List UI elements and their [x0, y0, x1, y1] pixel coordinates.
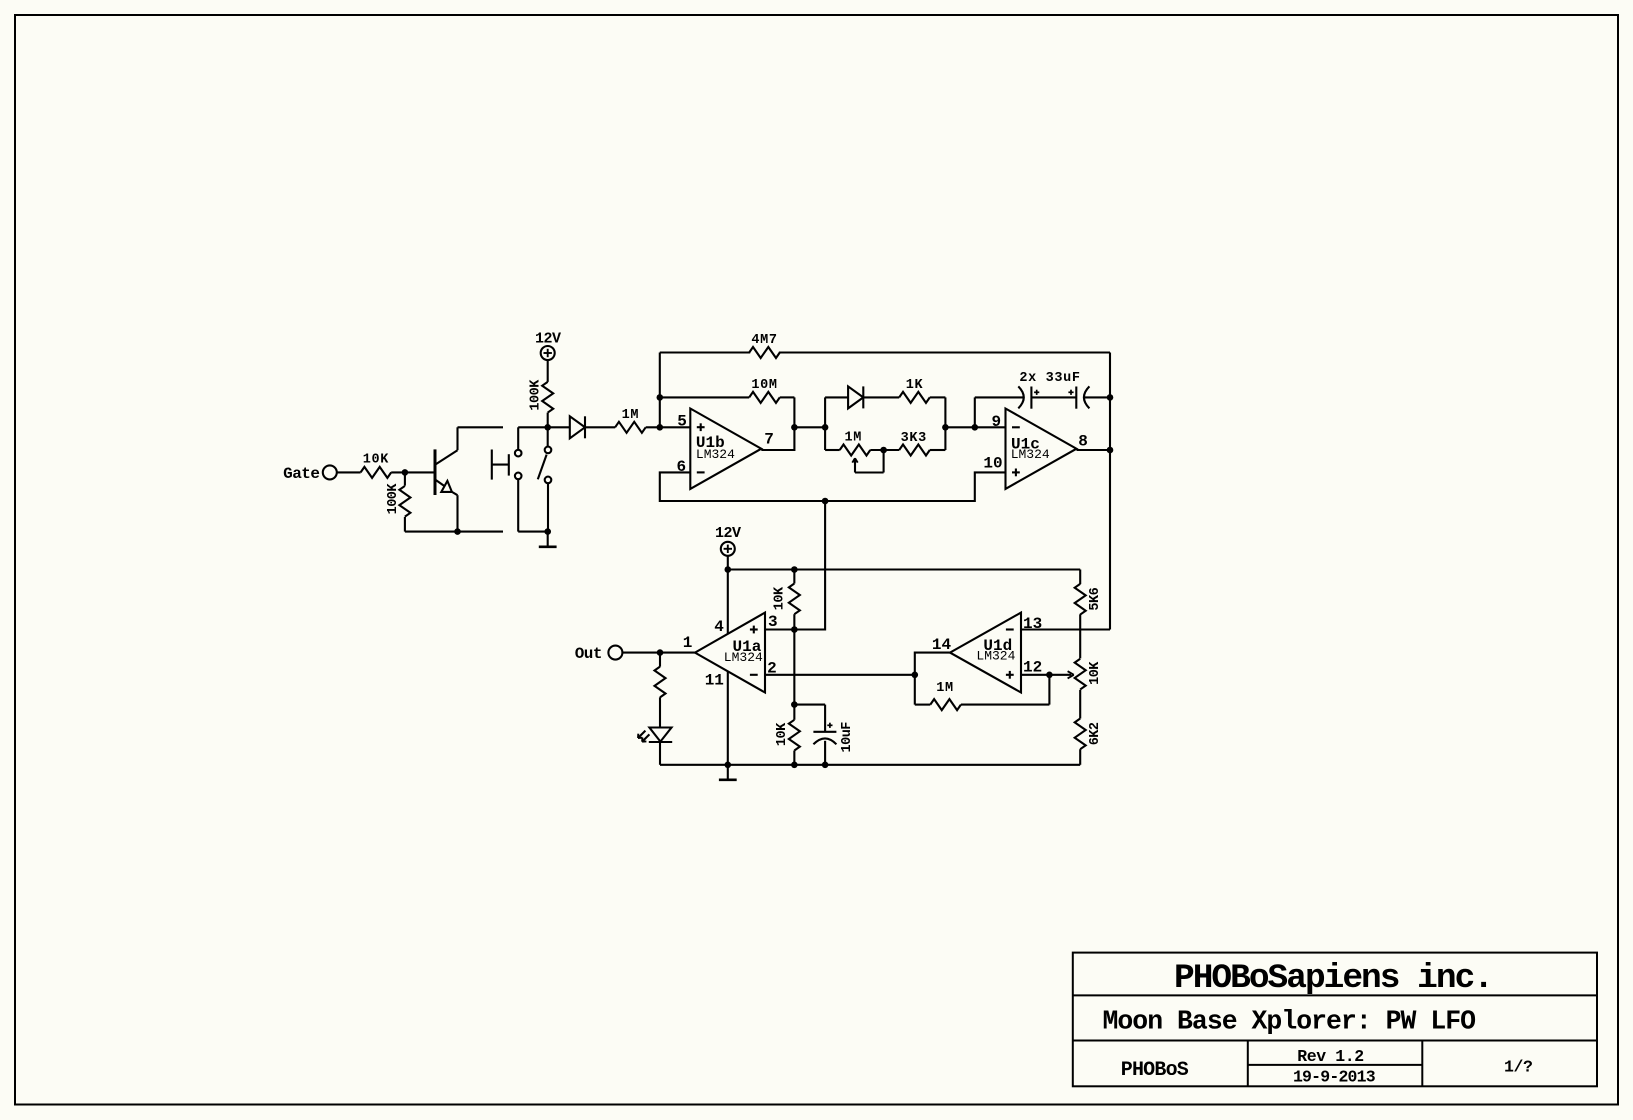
potentiometer 10K — [1075, 659, 1103, 690]
title page — [1504, 1058, 1533, 1077]
resistor 3K3 — [899, 431, 930, 456]
wire 4M7 line — [660, 351, 1110, 353]
svg-text:10: 10 — [983, 455, 1002, 473]
node gnd junction 3 — [822, 762, 829, 769]
wire collector — [458, 427, 504, 450]
svg-text:1M: 1M — [622, 408, 640, 423]
node Out junction — [657, 649, 664, 656]
resistor 10K lower — [775, 705, 800, 765]
svg-text:3: 3 — [768, 613, 778, 631]
wire emitter rail — [405, 531, 503, 533]
title date — [1293, 1068, 1376, 1087]
svg-text:5: 5 — [677, 413, 687, 431]
wire — [863, 396, 899, 398]
wire — [547, 413, 549, 428]
wire pin3 riser — [794, 501, 825, 630]
wire — [930, 396, 946, 398]
svg-text:1M: 1M — [845, 431, 863, 446]
node B — [972, 424, 979, 431]
wire — [646, 426, 691, 428]
svg-text:4: 4 — [714, 618, 724, 636]
wire — [930, 449, 946, 451]
node 10K top — [791, 566, 798, 573]
title author PHOBoS — [1121, 1059, 1189, 1082]
wire — [659, 742, 661, 765]
wire U1a output — [622, 652, 695, 654]
svg-text:10uF: 10uF — [840, 722, 855, 753]
svg-text:1: 1 — [683, 634, 693, 652]
resistor 100K — [386, 472, 411, 531]
wire pin3 — [765, 628, 794, 630]
resistor 5K6 — [1075, 570, 1103, 659]
node pin12 junction — [1046, 672, 1053, 679]
wire divider mid — [793, 630, 795, 705]
op-amp U1b — [676, 409, 773, 489]
node gnd junction 2 — [791, 762, 798, 769]
resistor 1M — [615, 408, 646, 433]
wire — [518, 427, 548, 450]
ground — [539, 532, 557, 547]
svg-text:Rev 1.2: Rev 1.2 — [1297, 1047, 1364, 1066]
resistor 100K pullup — [529, 379, 554, 413]
wire right rail — [944, 397, 946, 450]
svg-text:4M7: 4M7 — [751, 333, 777, 348]
wire — [547, 360, 549, 382]
svg-text:LM324: LM324 — [696, 447, 735, 462]
node vref rail junction — [822, 498, 829, 505]
wire left rail — [659, 353, 661, 428]
svg-text:6K2: 6K2 — [1088, 722, 1103, 745]
wire left rail — [824, 397, 826, 450]
node emitter junction — [454, 528, 461, 535]
node output junction — [1107, 447, 1114, 454]
power 12V supply 2 — [715, 525, 741, 556]
wire — [870, 449, 899, 451]
svg-text:1/?: 1/? — [1504, 1058, 1533, 1077]
svg-text:2x 33uF: 2x 33uF — [1019, 371, 1080, 386]
title company — [1174, 959, 1492, 998]
resistor 6K2 — [1075, 690, 1103, 765]
power 12V supply — [535, 331, 561, 361]
svg-text:10M: 10M — [751, 378, 777, 393]
transistor Q1 — [435, 449, 458, 495]
wire — [518, 479, 548, 531]
wire — [975, 426, 1006, 428]
resistor 4M7 — [749, 333, 780, 358]
node switch top junction — [544, 424, 551, 431]
svg-text:1M: 1M — [936, 681, 954, 696]
svg-text:LM324: LM324 — [976, 649, 1015, 664]
node network left — [822, 424, 829, 431]
ground — [719, 765, 737, 780]
node gnd junction 1 — [725, 762, 732, 769]
node output junction — [791, 424, 798, 431]
wire — [337, 471, 361, 473]
svg-text:8: 8 — [1078, 433, 1088, 451]
wire pin13 — [1021, 628, 1110, 630]
svg-text:LM324: LM324 — [1011, 447, 1050, 462]
wire — [548, 426, 570, 428]
svg-text:Out: Out — [575, 645, 602, 663]
svg-text:1K: 1K — [906, 378, 924, 393]
label 2x 33uF — [1019, 371, 1080, 386]
wire wiper — [1049, 671, 1073, 678]
wire U1d output — [915, 653, 950, 705]
svg-text:PHOBoSapiens inc.: PHOBoSapiens inc. — [1174, 959, 1492, 998]
potentiometer 1M — [840, 431, 884, 473]
wire emitter — [456, 495, 458, 531]
wire bottom branch — [825, 449, 840, 451]
wire — [391, 471, 435, 473]
svg-text:3K3: 3K3 — [901, 431, 927, 446]
wire — [1031, 396, 1076, 398]
svg-text:14: 14 — [932, 636, 952, 654]
svg-text:100K: 100K — [529, 379, 544, 411]
wire U1b output — [761, 397, 794, 450]
wire ground rail — [660, 764, 1080, 766]
title block frame — [1073, 953, 1597, 1087]
wire — [547, 483, 549, 531]
svg-text:100K: 100K — [386, 483, 401, 515]
svg-text:7: 7 — [764, 431, 774, 449]
capacitor C2 33uF — [1068, 386, 1089, 408]
wire — [585, 426, 615, 428]
node 10M tee — [657, 394, 664, 401]
switch S2 toggle — [538, 447, 552, 484]
resistor 10K — [361, 453, 392, 478]
wire right rail — [1109, 353, 1111, 630]
wire — [727, 556, 729, 570]
svg-text:10K: 10K — [775, 722, 790, 746]
node wiper junction — [880, 447, 887, 454]
wire — [1084, 396, 1110, 398]
capacitor C1 33uF — [1018, 386, 1039, 408]
op-amp U1a — [683, 613, 778, 693]
node power rail left — [725, 566, 732, 573]
resistor 10K upper — [772, 570, 800, 630]
svg-text:5K6: 5K6 — [1088, 587, 1103, 610]
node pin3 junction — [791, 626, 798, 633]
wire 10M line — [660, 396, 795, 398]
node divider mid — [791, 701, 798, 708]
svg-text:10K: 10K — [363, 453, 390, 468]
op-amp U1c — [983, 409, 1087, 489]
resistor 1K — [899, 378, 930, 403]
wire power pin4 — [727, 570, 729, 634]
svg-text:10K: 10K — [1088, 661, 1103, 685]
node switch bottom junction — [544, 528, 551, 535]
op-amp U1d — [932, 613, 1042, 693]
wire — [794, 426, 825, 428]
wire pin6 feedback — [660, 472, 1006, 501]
svg-text:10K: 10K — [772, 586, 787, 610]
svg-text:LM324: LM324 — [724, 650, 763, 665]
node Gate terminal — [283, 465, 337, 483]
LED D3 — [638, 728, 672, 743]
diode D1 — [570, 416, 585, 438]
svg-text:9: 9 — [991, 413, 1001, 431]
wire U1c output — [1077, 449, 1111, 451]
title rev — [1297, 1047, 1364, 1066]
wire cap riser — [975, 397, 1024, 427]
node network right — [942, 424, 949, 431]
wire power pin11 — [727, 671, 729, 765]
node Out terminal — [575, 645, 623, 663]
diode D2 — [848, 386, 863, 408]
svg-text:11: 11 — [705, 672, 724, 690]
wire 12V rail — [728, 568, 1080, 570]
wire — [945, 426, 974, 428]
svg-text:Moon Base Xplorer: PW LFO: Moon Base Xplorer: PW LFO — [1103, 1007, 1476, 1037]
wire pin2 — [765, 674, 915, 676]
resistor LED series — [655, 653, 666, 727]
node A — [657, 424, 664, 431]
resistor 10M — [749, 378, 780, 403]
svg-text:PHOBoS: PHOBoS — [1121, 1059, 1189, 1082]
wire top branch — [825, 396, 848, 398]
svg-text:12V: 12V — [535, 331, 561, 348]
svg-text:19-9-2013: 19-9-2013 — [1293, 1068, 1376, 1087]
capacitor C3 10uF — [794, 705, 855, 765]
svg-text:Gate: Gate — [283, 465, 319, 483]
resistor 1M feedback — [915, 675, 1050, 710]
wire — [547, 427, 549, 446]
switch S1 pushbutton — [492, 450, 522, 480]
node fb junction — [912, 672, 919, 679]
title project — [1103, 1007, 1476, 1037]
svg-text:12V: 12V — [715, 525, 741, 542]
node cap right — [1107, 394, 1114, 401]
node base junction — [402, 469, 409, 476]
wire pin12 — [1021, 674, 1049, 676]
